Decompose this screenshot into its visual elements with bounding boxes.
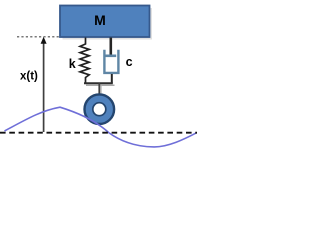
wheel link rod <box>98 83 100 95</box>
wheel link rod shadow <box>100 85 102 93</box>
svg-text:M: M <box>94 12 106 28</box>
connecting bar under spring and damper <box>84 82 113 84</box>
wheel hub <box>93 103 106 116</box>
svg-text:c: c <box>126 55 133 69</box>
svg-text:k: k <box>69 57 76 71</box>
damper piston rod <box>110 38 113 56</box>
wheel (tyre) <box>85 94 115 124</box>
top reference dashed line <box>17 36 60 38</box>
displacement arrow x(t) shaft <box>43 44 45 133</box>
mass M (block) <box>60 6 150 38</box>
road profile sine wave <box>5 107 197 147</box>
damper lower stub <box>111 74 113 83</box>
ground dashed line <box>0 132 197 134</box>
arrowhead <box>41 37 47 44</box>
damper cylinder cup <box>104 50 118 73</box>
connecting bar shadow <box>86 84 115 86</box>
svg-text:x(t): x(t) <box>20 71 38 83</box>
spring k (zigzag) <box>80 38 89 84</box>
damper piston plate <box>105 54 117 57</box>
mass M (block) shadow <box>63 8 153 40</box>
